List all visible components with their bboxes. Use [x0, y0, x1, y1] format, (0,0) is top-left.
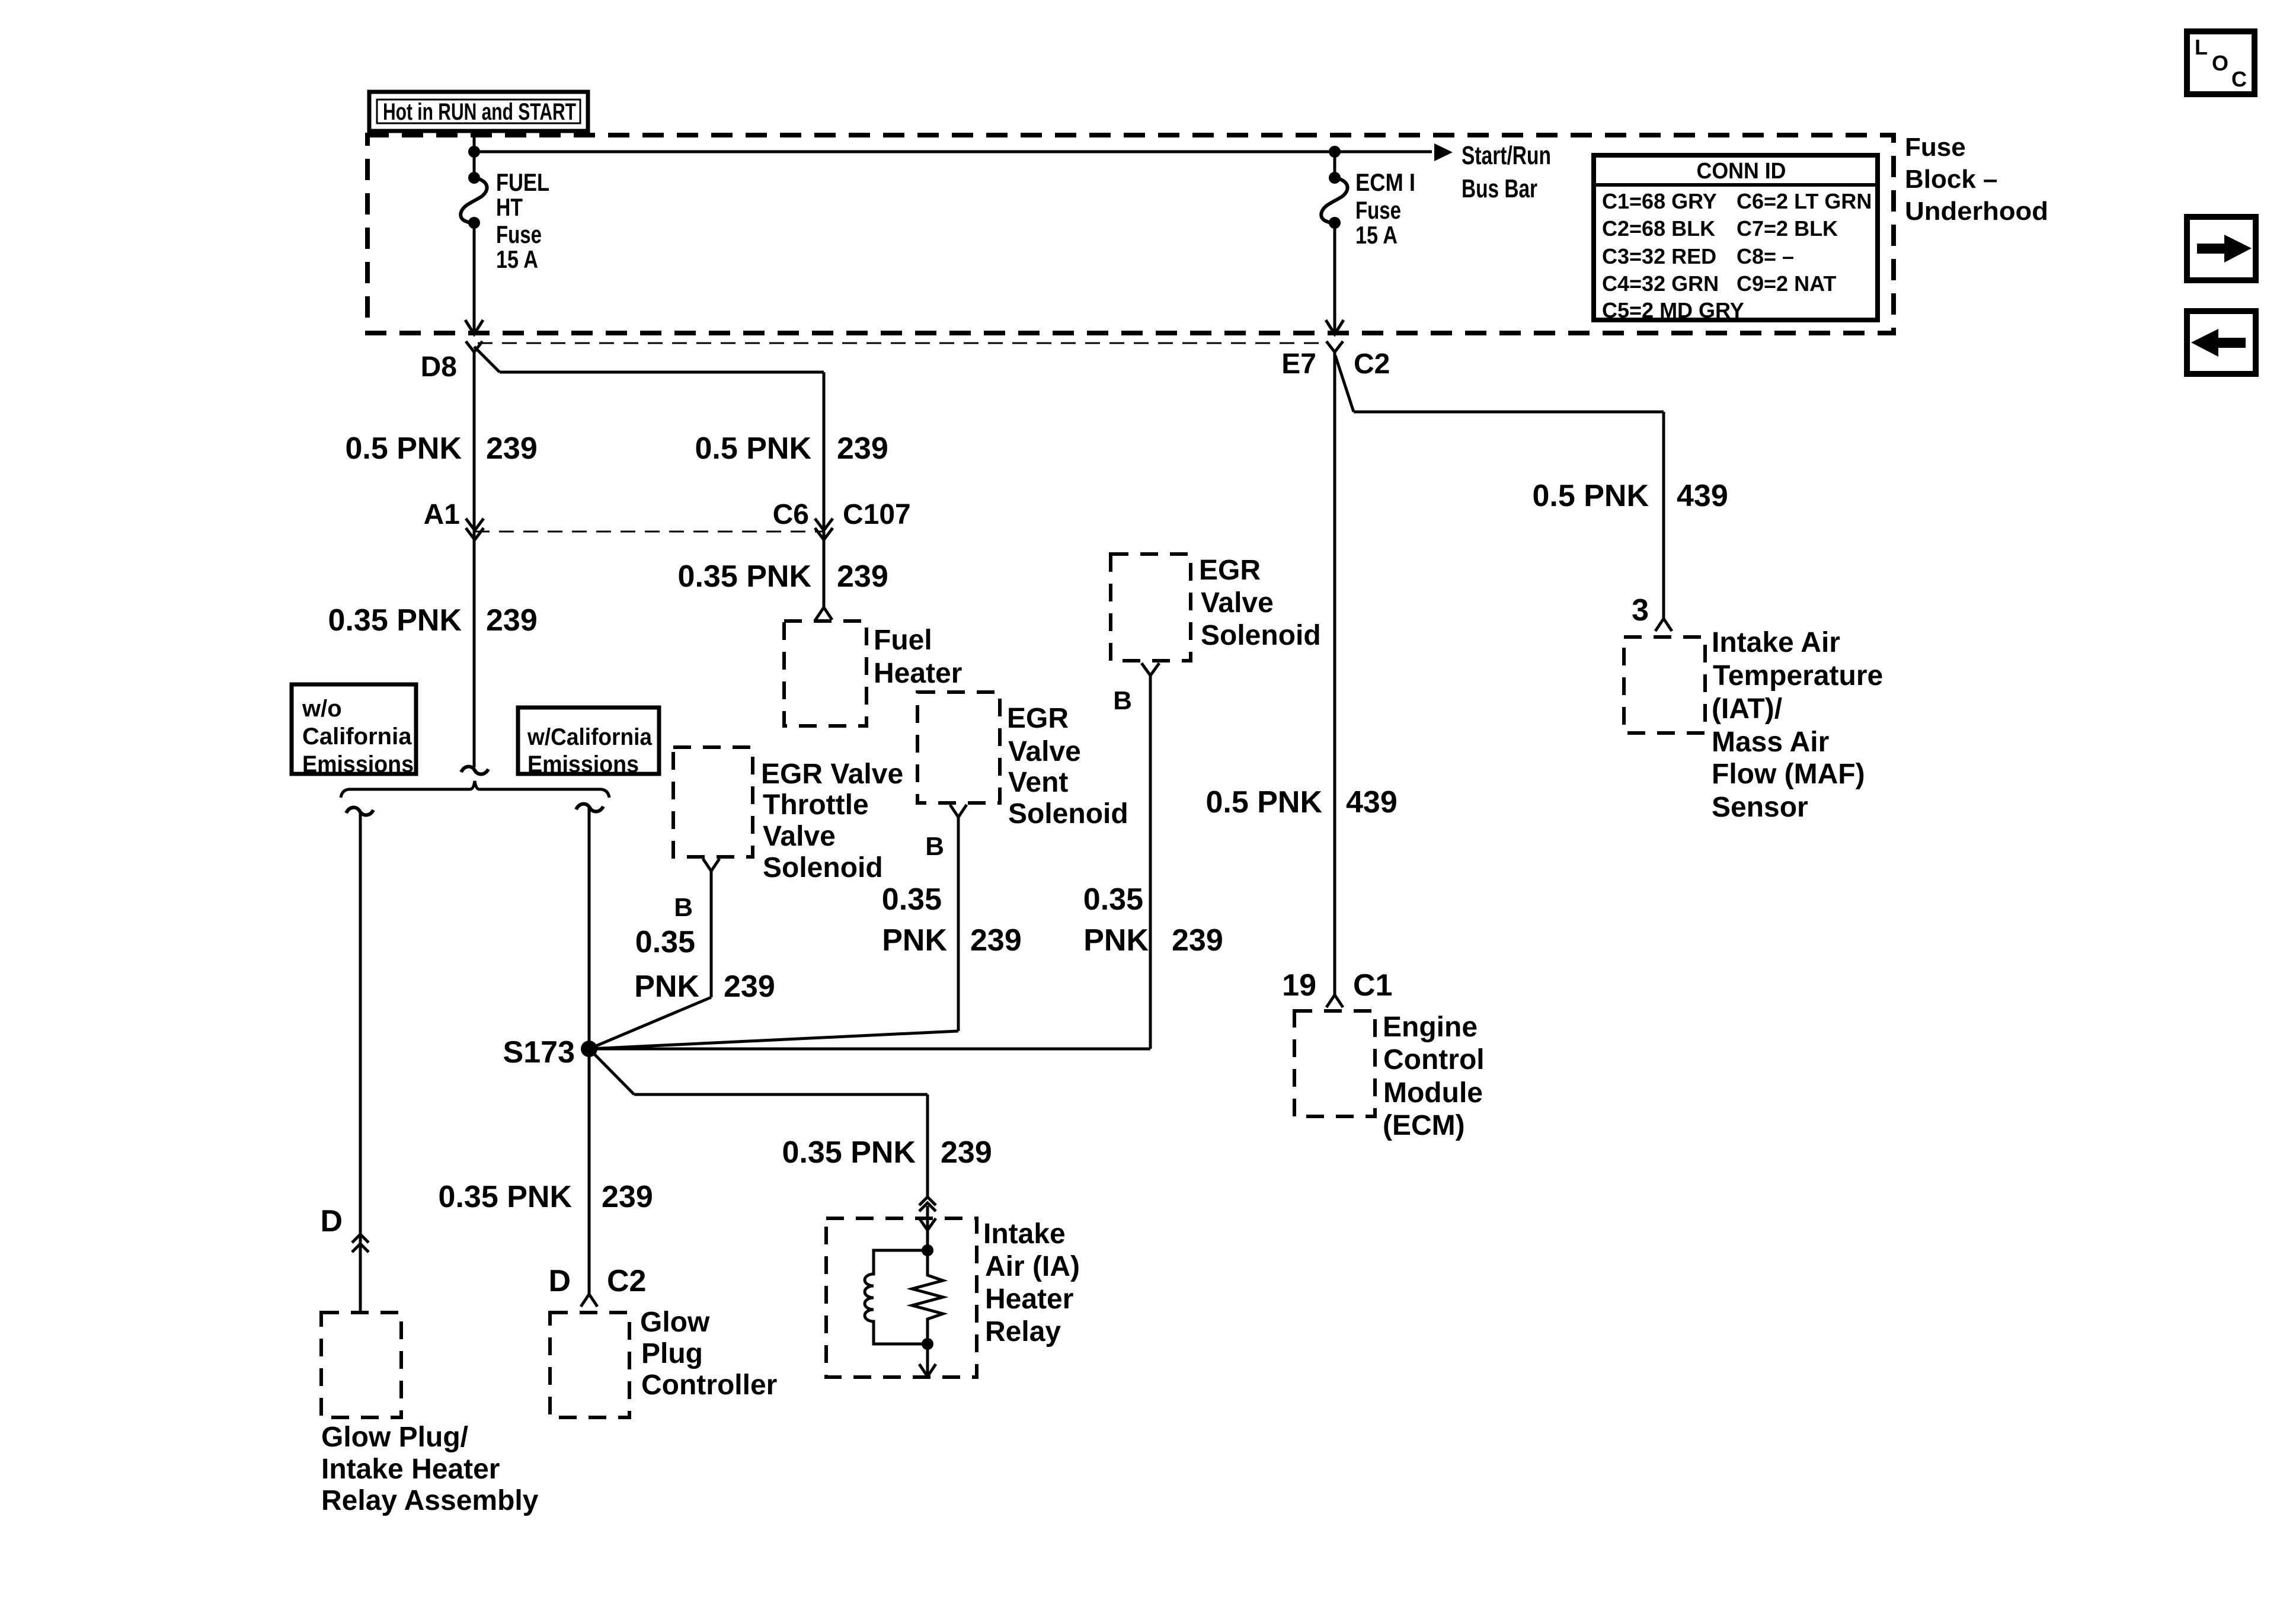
component: Engine Control Module (ECM)	[1294, 1011, 1485, 1141]
svg-text:0.35 PNK: 0.35 PNK	[678, 559, 812, 594]
squiggle top of w/o branch	[346, 808, 373, 815]
svg-text:Fuse: Fuse	[496, 220, 542, 248]
svg-text:EGR: EGR	[1199, 555, 1261, 586]
connector C6 / C107 (double chevron)	[773, 499, 911, 540]
svg-text:C2=68 BLK: C2=68 BLK	[1602, 216, 1715, 241]
svg-text:C9=2 NAT: C9=2 NAT	[1737, 271, 1836, 296]
svg-text:Solenoid: Solenoid	[1201, 620, 1321, 651]
svg-text:0.35 PNK: 0.35 PNK	[782, 1135, 916, 1170]
svg-text:C7=2 BLK: C7=2 BLK	[1737, 216, 1838, 241]
arrow into relay	[926, 1206, 929, 1250]
svg-text:19: 19	[1282, 968, 1316, 1003]
label box: Hot in RUN and START	[369, 92, 588, 131]
svg-text:Start/Run: Start/Run	[1462, 141, 1551, 170]
connector chevrons above relay	[919, 1197, 936, 1205]
label 0.35 PNK 239 (IA relay wire)	[782, 1135, 992, 1170]
svg-text:D: D	[320, 1204, 343, 1238]
squiggle end of A1 wire	[461, 767, 488, 774]
svg-text:(ECM): (ECM)	[1383, 1110, 1465, 1141]
svg-text:C2: C2	[1354, 348, 1390, 380]
svg-text:E7: E7	[1281, 348, 1316, 380]
component: Fuel Heater dashed box	[784, 621, 962, 726]
svg-text:O: O	[2212, 51, 2228, 75]
svg-text:0.5 PNK: 0.5 PNK	[1532, 479, 1649, 513]
w/o California Emissions box	[292, 684, 416, 777]
svg-text:Vent: Vent	[1008, 767, 1068, 798]
label: Fuse Block - Underhood	[1905, 133, 2048, 226]
svg-text:C6=2 LT GRN: C6=2 LT GRN	[1737, 189, 1872, 213]
wire w/California branch down to S173	[588, 808, 591, 1049]
svg-text:0.35: 0.35	[635, 925, 695, 959]
wire label 0.35 PNK 239 (A1 branch)	[328, 603, 538, 638]
wire branch D8 to C107	[474, 347, 500, 372]
svg-text:Glow: Glow	[640, 1307, 710, 1338]
component: Glow Plug Controller	[550, 1307, 777, 1417]
svg-text:439: 439	[1346, 785, 1398, 820]
svg-text:Flow (MAF): Flow (MAF)	[1712, 758, 1865, 790]
svg-text:C: C	[2231, 67, 2247, 91]
svg-text:Mass Air: Mass Air	[1712, 726, 1829, 758]
svg-text:PNK: PNK	[634, 969, 699, 1004]
wire label 0.35 PNK 239 (C107 branch)	[678, 559, 888, 594]
icon: arrow left box	[2187, 311, 2256, 374]
svg-text:3: 3	[1632, 593, 1649, 628]
brace under A1 wire	[341, 781, 609, 798]
svg-text:239: 239	[837, 431, 888, 466]
squiggle top of w/California branch	[576, 804, 603, 812]
svg-text:C107: C107	[843, 499, 911, 530]
svg-text:Heater: Heater	[874, 658, 962, 689]
svg-text:239: 239	[602, 1180, 653, 1214]
svg-text:Intake Air: Intake Air	[1712, 627, 1840, 658]
icon: LOC box	[2187, 31, 2255, 94]
connector B of EGR valve solenoid	[1113, 663, 1159, 715]
svg-text:C6: C6	[773, 499, 809, 530]
svg-text:California: California	[302, 724, 412, 750]
component: EGR Valve Vent Solenoid	[917, 692, 1128, 830]
component: IAT / MAF Sensor	[1624, 627, 1883, 823]
svg-text:Glow Plug/: Glow Plug/	[321, 1422, 468, 1453]
svg-text:239: 239	[837, 559, 888, 594]
svg-text:239: 239	[486, 603, 538, 638]
label 0.35 PNK 239 (controller wire)	[439, 1180, 653, 1214]
connector B of EGR TV solenoid	[674, 859, 720, 922]
svg-text:Solenoid: Solenoid	[763, 852, 883, 884]
svg-text:439: 439	[1677, 479, 1728, 513]
wire EGR TV solenoid to S173	[710, 870, 713, 997]
svg-text:Valve: Valve	[1008, 736, 1081, 767]
connector D / C2 at controller	[548, 1264, 646, 1307]
relay resistor	[912, 1250, 943, 1344]
wire: ECM I fuse down to E7 with arrow	[1326, 223, 1344, 334]
svg-text:Sensor: Sensor	[1712, 792, 1808, 823]
svg-text:Solenoid: Solenoid	[1008, 798, 1128, 830]
svg-text:C4=32 GRN: C4=32 GRN	[1602, 271, 1719, 296]
label 0.35 PNK 239 (vent solenoid wire)	[882, 882, 1022, 958]
svg-text:239: 239	[1172, 923, 1223, 958]
connector B of EGR vent solenoid	[925, 805, 967, 861]
label 0.35 PNK 239 (TV solenoid wire)	[634, 925, 775, 1004]
svg-text:w/o: w/o	[302, 696, 342, 722]
svg-text:Controller: Controller	[641, 1369, 777, 1401]
svg-text:ECM I: ECM I	[1355, 168, 1415, 196]
svg-text:Intake Heater: Intake Heater	[321, 1454, 500, 1485]
svg-text:EGR: EGR	[1007, 703, 1069, 734]
label 0.5 PNK 439 (IAT wire)	[1532, 479, 1728, 513]
svg-text:Underhood: Underhood	[1905, 197, 2048, 226]
svg-text:w/California: w/California	[527, 724, 653, 750]
fuse ECM I 15 A	[1321, 152, 1415, 249]
wire label 0.5 PNK 239 (right)	[695, 431, 888, 466]
svg-text:CONN ID: CONN ID	[1697, 159, 1786, 184]
svg-text:C2: C2	[607, 1264, 646, 1298]
component: Intake Air (IA) Heater Relay	[826, 1218, 1080, 1377]
wire branch E7 to IAT/MAF	[1335, 356, 1354, 412]
svg-text:Block –: Block –	[1905, 165, 1998, 194]
svg-text:HT: HT	[496, 193, 523, 221]
svg-text:Plug: Plug	[641, 1338, 703, 1369]
svg-text:0.5 PNK: 0.5 PNK	[695, 431, 811, 466]
svg-text:Throttle: Throttle	[763, 789, 869, 821]
w/California Emissions box	[518, 708, 659, 777]
svg-text:B: B	[1113, 686, 1132, 715]
svg-text:C1: C1	[1353, 968, 1392, 1003]
svg-text:0.35: 0.35	[882, 882, 942, 917]
svg-text:Fuse: Fuse	[1905, 133, 1966, 162]
svg-text:0.5 PNK: 0.5 PNK	[345, 431, 462, 466]
svg-text:A1: A1	[424, 499, 460, 530]
component: Glow Plug / Intake Heater Relay Assembly	[321, 1313, 539, 1516]
connector D at relay assembly (double chevron)	[320, 1204, 369, 1252]
svg-text:Relay Assembly: Relay Assembly	[321, 1485, 539, 1516]
svg-text:PNK: PNK	[1083, 923, 1149, 958]
svg-text:B: B	[925, 832, 944, 861]
svg-text:15 A: 15 A	[1355, 221, 1398, 249]
fuse block underhood dashed box	[367, 135, 1894, 333]
label 0.35 PNK 239 (valve solenoid wire)	[1083, 882, 1223, 958]
svg-text:Bus Bar: Bus Bar	[1462, 174, 1537, 203]
wire: bus bar horizontal	[474, 137, 1551, 203]
wire S173 to IA heater relay	[589, 1049, 634, 1094]
svg-text:L: L	[2195, 35, 2208, 59]
svg-text:Hot in RUN and START: Hot in RUN and START	[383, 99, 576, 125]
svg-text:0.5 PNK: 0.5 PNK	[1205, 785, 1322, 820]
node: junction dot at ECM I tap	[1329, 146, 1341, 158]
dashed line A1 to C107	[475, 531, 824, 533]
wire out of relay with arrow	[926, 1344, 929, 1376]
component: EGR Valve Solenoid	[1111, 554, 1321, 661]
svg-text:239: 239	[970, 923, 1022, 958]
svg-text:D8: D8	[421, 351, 457, 383]
svg-text:15 A: 15 A	[496, 245, 538, 273]
svg-text:Fuel: Fuel	[874, 625, 932, 656]
component: EGR Valve Throttle Valve Solenoid	[673, 747, 903, 884]
svg-text:C3=32 RED: C3=32 RED	[1602, 244, 1716, 268]
svg-text:Air (IA): Air (IA)	[985, 1251, 1080, 1282]
svg-text:0.35: 0.35	[1083, 882, 1143, 917]
wire w/o branch down	[359, 811, 362, 1313]
svg-text:C8= –: C8= –	[1737, 244, 1794, 268]
connector A1 (double chevron)	[424, 499, 484, 540]
svg-text:Intake: Intake	[983, 1218, 1066, 1250]
svg-text:Control: Control	[1383, 1044, 1485, 1076]
wire EGR vent solenoid to S173	[957, 816, 960, 1031]
svg-text:C5=2 MD GRY: C5=2 MD GRY	[1602, 298, 1744, 322]
svg-text:Emissions: Emissions	[302, 751, 414, 777]
icon: arrow right box	[2187, 217, 2256, 280]
node: junction dot at FUEL HT tap	[468, 146, 480, 158]
svg-text:(IAT)/: (IAT)/	[1712, 693, 1782, 725]
CONN ID table	[1594, 155, 1878, 322]
splice S173	[503, 1035, 597, 1070]
svg-text:PNK: PNK	[882, 923, 947, 958]
svg-text:Heater: Heater	[985, 1283, 1073, 1315]
connector into Fuel Heater	[816, 607, 832, 620]
svg-text:Fuse: Fuse	[1355, 196, 1401, 224]
svg-text:FUEL: FUEL	[496, 168, 549, 196]
wire EGR valve solenoid to S173	[1149, 674, 1152, 1049]
connector pin 3 at IAT	[1632, 593, 1672, 631]
svg-text:Engine: Engine	[1383, 1012, 1478, 1043]
svg-text:B: B	[674, 893, 693, 922]
svg-text:0.35 PNK: 0.35 PNK	[328, 603, 462, 638]
svg-text:Emissions: Emissions	[527, 751, 639, 777]
wire E7 down to ECM	[1334, 351, 1336, 994]
wire label 0.5 PNK 239 (left)	[345, 431, 537, 466]
thin dashed connector line under fuse block	[478, 343, 1328, 344]
svg-text:C1=68 GRY: C1=68 GRY	[1602, 189, 1717, 213]
svg-text:D: D	[548, 1264, 571, 1298]
connector D8	[421, 341, 482, 383]
svg-text:Valve: Valve	[763, 821, 836, 852]
connector 19 / C1 at ECM	[1282, 968, 1392, 1007]
svg-text:Relay: Relay	[985, 1316, 1061, 1347]
wire D8 down to A1	[473, 351, 476, 767]
svg-text:239: 239	[486, 431, 538, 466]
svg-text:EGR Valve: EGR Valve	[761, 758, 903, 790]
wire: FUEL HT fuse down to D8 with arrow	[465, 223, 483, 334]
svg-text:239: 239	[724, 969, 775, 1004]
connector E7 / C2	[1281, 341, 1390, 380]
svg-text:S173: S173	[503, 1035, 575, 1070]
svg-text:0.35 PNK: 0.35 PNK	[439, 1180, 573, 1214]
svg-text:239: 239	[941, 1135, 992, 1170]
svg-text:Valve: Valve	[1201, 587, 1274, 619]
relay coil	[922, 1244, 933, 1256]
wire S173 down to glow plug controller	[588, 1049, 591, 1294]
svg-text:Module: Module	[1383, 1077, 1483, 1109]
svg-text:Temperature: Temperature	[1713, 660, 1883, 692]
label 0.5 PNK 439 (ECM wire)	[1205, 785, 1397, 820]
fuse FUEL HT 15 A	[461, 152, 549, 273]
